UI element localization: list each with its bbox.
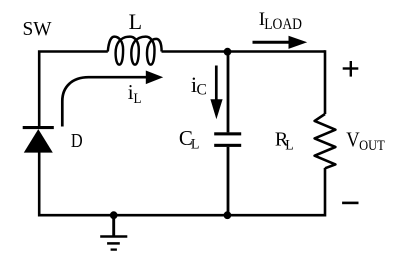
curved current arrow i_L — [62, 71, 163, 127]
wire bottom: ground node to bottom-right corner — [114, 168, 325, 215]
minus sign — [342, 202, 358, 205]
junction node ground — [110, 211, 118, 219]
svg-text:D: D — [71, 130, 83, 152]
svg-text:OUT: OUT — [359, 138, 385, 154]
svg-text:L: L — [191, 136, 200, 152]
svg-text:C: C — [197, 81, 207, 98]
svg-text:SW: SW — [23, 18, 52, 40]
junction node bottom — [224, 211, 232, 219]
plus sign — [343, 61, 359, 77]
current arrow i_C — [210, 66, 222, 120]
wire middle branch upper: top node to capacitor — [227, 52, 230, 133]
capacitor C_L plates — [214, 132, 241, 147]
resistor R_L zigzag — [315, 114, 336, 168]
inductor L coil — [108, 37, 162, 65]
svg-text:L: L — [285, 137, 293, 153]
svg-text:V: V — [346, 127, 359, 151]
ground symbol — [100, 215, 127, 249]
wire left lower: diode to bottom-left corner — [39, 152, 114, 215]
wire middle branch lower: capacitor to bottom node — [227, 147, 230, 215]
junction node top — [224, 48, 232, 56]
wire top-left: SW node to inductor — [39, 52, 108, 127]
svg-text:LOAD: LOAD — [264, 16, 302, 33]
wire top: inductor to top-right corner — [162, 50, 326, 53]
svg-text:L: L — [134, 91, 142, 107]
svg-text:L: L — [129, 9, 142, 34]
wire right: top corner down to resistor — [324, 50, 327, 114]
diode D — [23, 126, 54, 153]
current arrow I_LOAD — [253, 36, 308, 49]
